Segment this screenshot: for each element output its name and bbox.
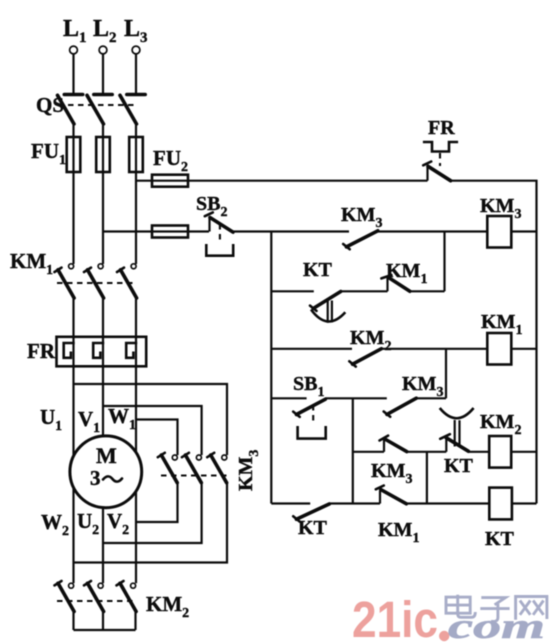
svg-text:com: com xyxy=(448,606,545,642)
svg-text:FR: FR xyxy=(428,117,455,139)
svg-text:21ic: 21ic xyxy=(352,591,438,642)
svg-text:KT: KT xyxy=(444,455,474,477)
svg-text:FR: FR xyxy=(27,339,56,363)
svg-text:KT: KT xyxy=(485,528,515,550)
svg-text:KT: KT xyxy=(303,259,333,281)
svg-text:KT: KT xyxy=(298,517,328,539)
svg-text:3: 3 xyxy=(90,466,101,490)
svg-text:M: M xyxy=(96,443,117,468)
